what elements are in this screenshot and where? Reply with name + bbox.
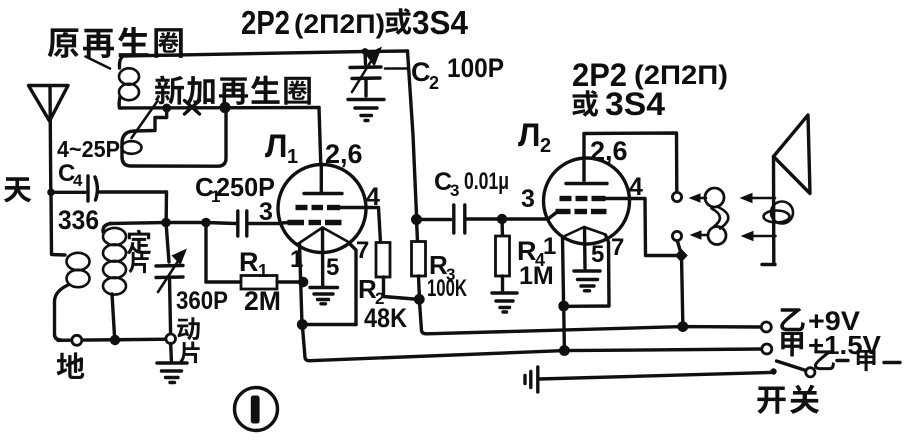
wire: tank bottom bus [58, 339, 170, 340]
V1 plate [304, 192, 342, 195]
svg-text:2: 2 [429, 73, 439, 93]
V2 plate [566, 182, 607, 185]
svg-text:100K: 100K [427, 275, 467, 302]
svg-text:4~25P: 4~25P [57, 136, 120, 162]
tube V1 envelope [278, 165, 366, 253]
resistor R4 [496, 219, 510, 290]
resistor R3 [412, 220, 426, 296]
leader line to original coil [86, 57, 111, 69]
label pin 2,6 area pins [543, 173, 643, 268]
label 开关 [757, 385, 819, 414]
V2 screen grid [560, 196, 630, 201]
wire: filament loop [302, 323, 356, 326]
switch 开关 [770, 361, 815, 377]
node: tank/C4 [161, 218, 171, 228]
wire: V2 filament to A bus [562, 306, 566, 351]
V2 pin7 wire [568, 235, 609, 306]
node: C3/R3 [411, 214, 422, 225]
variable capacitor C2 [350, 47, 382, 97]
V1 filament [299, 228, 349, 244]
label R1 [239, 247, 268, 281]
leader line to new coil [132, 101, 158, 138]
V1 pin5 lead [321, 228, 325, 286]
node A [162, 104, 171, 113]
V2 filament [563, 227, 606, 237]
node: R3/R2 bottom [414, 294, 425, 305]
svg-text:C: C [411, 57, 431, 87]
label Л1 [265, 128, 298, 168]
speaker [762, 115, 810, 265]
wire: node down to B bus [682, 261, 683, 322]
wire: C4 node down to tank top [164, 192, 168, 218]
label 乙+9V [780, 306, 860, 336]
svg-text:3: 3 [450, 181, 459, 200]
svg-text:1: 1 [258, 261, 268, 281]
svg-text:7: 7 [356, 237, 369, 264]
V2 pin1 wire [563, 238, 564, 306]
resistor R2 [366, 208, 414, 300]
svg-text:3S4: 3S4 [605, 86, 665, 122]
label 定片 [127, 230, 151, 274]
wire: regen bottom with cut [120, 106, 320, 110]
arrows: plugs to jack [689, 193, 708, 240]
svg-text:48K: 48K [364, 303, 407, 333]
wire: tank top [110, 223, 236, 224]
output transformer winding [764, 202, 794, 224]
svg-text:2,6: 2,6 [590, 136, 628, 166]
node: C2 top [362, 48, 369, 55]
capacitor C1 [238, 211, 280, 236]
V2 control grid [548, 212, 607, 220]
node: V2 filament [558, 301, 569, 312]
node: R1 to pin1 [298, 277, 308, 287]
label R4 [517, 236, 545, 270]
node B [219, 102, 230, 113]
capacitor C3 [417, 205, 503, 233]
figure mark 1 [235, 388, 278, 431]
wire: B+ bus [419, 299, 761, 334]
svg-text:5: 5 [591, 241, 604, 268]
inductor: antenna coupling primary [55, 253, 90, 340]
ground: tank [157, 344, 187, 383]
svg-text:336: 336 [58, 205, 99, 235]
tube V2 envelope [544, 158, 630, 244]
svg-text:7: 7 [611, 234, 624, 261]
label 天 [4, 177, 32, 202]
node: B bus / jack [677, 321, 688, 332]
terminal 甲+1.5V [762, 344, 772, 354]
svg-text:3: 3 [259, 198, 273, 226]
svg-text:360P: 360P [176, 287, 228, 315]
terminal: jack bottom [672, 231, 681, 240]
label C3 0.01u [434, 168, 509, 200]
wire: plate top corner down to C3 node [408, 51, 417, 215]
capacitor C4 [51, 176, 167, 201]
ground: C2 [348, 100, 384, 121]
terminal: earth 地 [72, 335, 82, 345]
wire: A+ bus [302, 325, 762, 361]
V1 pin1 wire [300, 244, 303, 325]
label R3 [429, 250, 455, 284]
svg-text:Л: Л [265, 128, 287, 164]
wire: antenna down to primary coil [51, 192, 65, 255]
svg-text:0.01μ: 0.01μ [464, 168, 509, 195]
label Л2 [518, 117, 551, 157]
node: V2 grid [497, 214, 507, 224]
label 动片 [177, 317, 200, 363]
inductor: new regeneration loop [122, 108, 227, 166]
wire: V2 plate to jack [584, 133, 677, 192]
V1 plate lead [320, 164, 323, 191]
svg-text:2M: 2M [244, 286, 281, 316]
svg-text:R: R [239, 247, 259, 277]
headphone plugs [705, 188, 728, 245]
node: screen/jack [675, 249, 688, 262]
svg-text:Л: Л [518, 117, 540, 153]
wire: jack bottom to node [677, 241, 680, 252]
wire: ground to switch [539, 373, 770, 380]
svg-text:5: 5 [326, 254, 339, 281]
V1 screen grid [296, 205, 367, 210]
node: grid node [201, 218, 211, 228]
label 甲+1.5V [781, 330, 881, 360]
label 地 [57, 352, 85, 379]
resistor R1 [206, 223, 303, 290]
label 乙-甲- [814, 350, 900, 371]
node: antenna junction [47, 189, 55, 197]
label C2 100P [385, 53, 504, 93]
svg-text:2P2: 2P2 [241, 4, 290, 41]
svg-text:2: 2 [540, 135, 551, 157]
label 原再生圈 [48, 27, 183, 58]
terminal: jack top [672, 192, 681, 201]
svg-text:+1.5V: +1.5V [808, 330, 882, 360]
svg-text:3: 3 [521, 185, 535, 213]
chassis ground (battery minus) [525, 367, 538, 392]
svg-text:3S4: 3S4 [412, 4, 469, 41]
label R2 [358, 274, 384, 308]
antenna [29, 86, 69, 193]
ground: V1 pin5 [310, 288, 338, 304]
label 新加再生圈 [155, 75, 311, 104]
label 2P2 (2П2П) 或 3S4 (V2) [572, 57, 728, 122]
X cut mark [185, 101, 200, 115]
inductor: tank coil [103, 224, 126, 337]
wire: V2 screen to node [629, 199, 677, 256]
svg-text:1: 1 [287, 146, 298, 168]
svg-text:100P: 100P [447, 53, 504, 83]
ground: R4 [492, 293, 517, 312]
node: filament junction [297, 319, 308, 330]
ground: V2 pin5 [574, 271, 600, 291]
label C4 [58, 160, 83, 190]
wire: to V2 pin3 [502, 217, 548, 220]
svg-text:1: 1 [543, 233, 556, 260]
terminal 乙+9V [761, 322, 771, 332]
variable capacitor 360P [156, 223, 187, 335]
terminal: rotor 动片 [166, 334, 176, 344]
node: A bus [559, 345, 570, 356]
wire: down to V1 plate [319, 108, 321, 166]
V1 pin7 wire [349, 243, 356, 325]
inductor: original regeneration coil [119, 57, 139, 108]
V1 control grid [280, 220, 342, 226]
label 2P2 (2П2П) 或 3S4 [241, 4, 469, 41]
V2 plate lead [582, 158, 585, 181]
wire: plate top bus [122, 51, 408, 56]
arrows: speaker leads [740, 193, 776, 241]
V2 pin5 lead [583, 228, 587, 269]
svg-text:(2П2П): (2П2П) [294, 9, 385, 39]
node: coil bottom junction [110, 335, 120, 345]
label C1 250P [195, 172, 275, 206]
svg-text:4: 4 [73, 171, 83, 190]
svg-text:1M: 1M [519, 262, 554, 290]
